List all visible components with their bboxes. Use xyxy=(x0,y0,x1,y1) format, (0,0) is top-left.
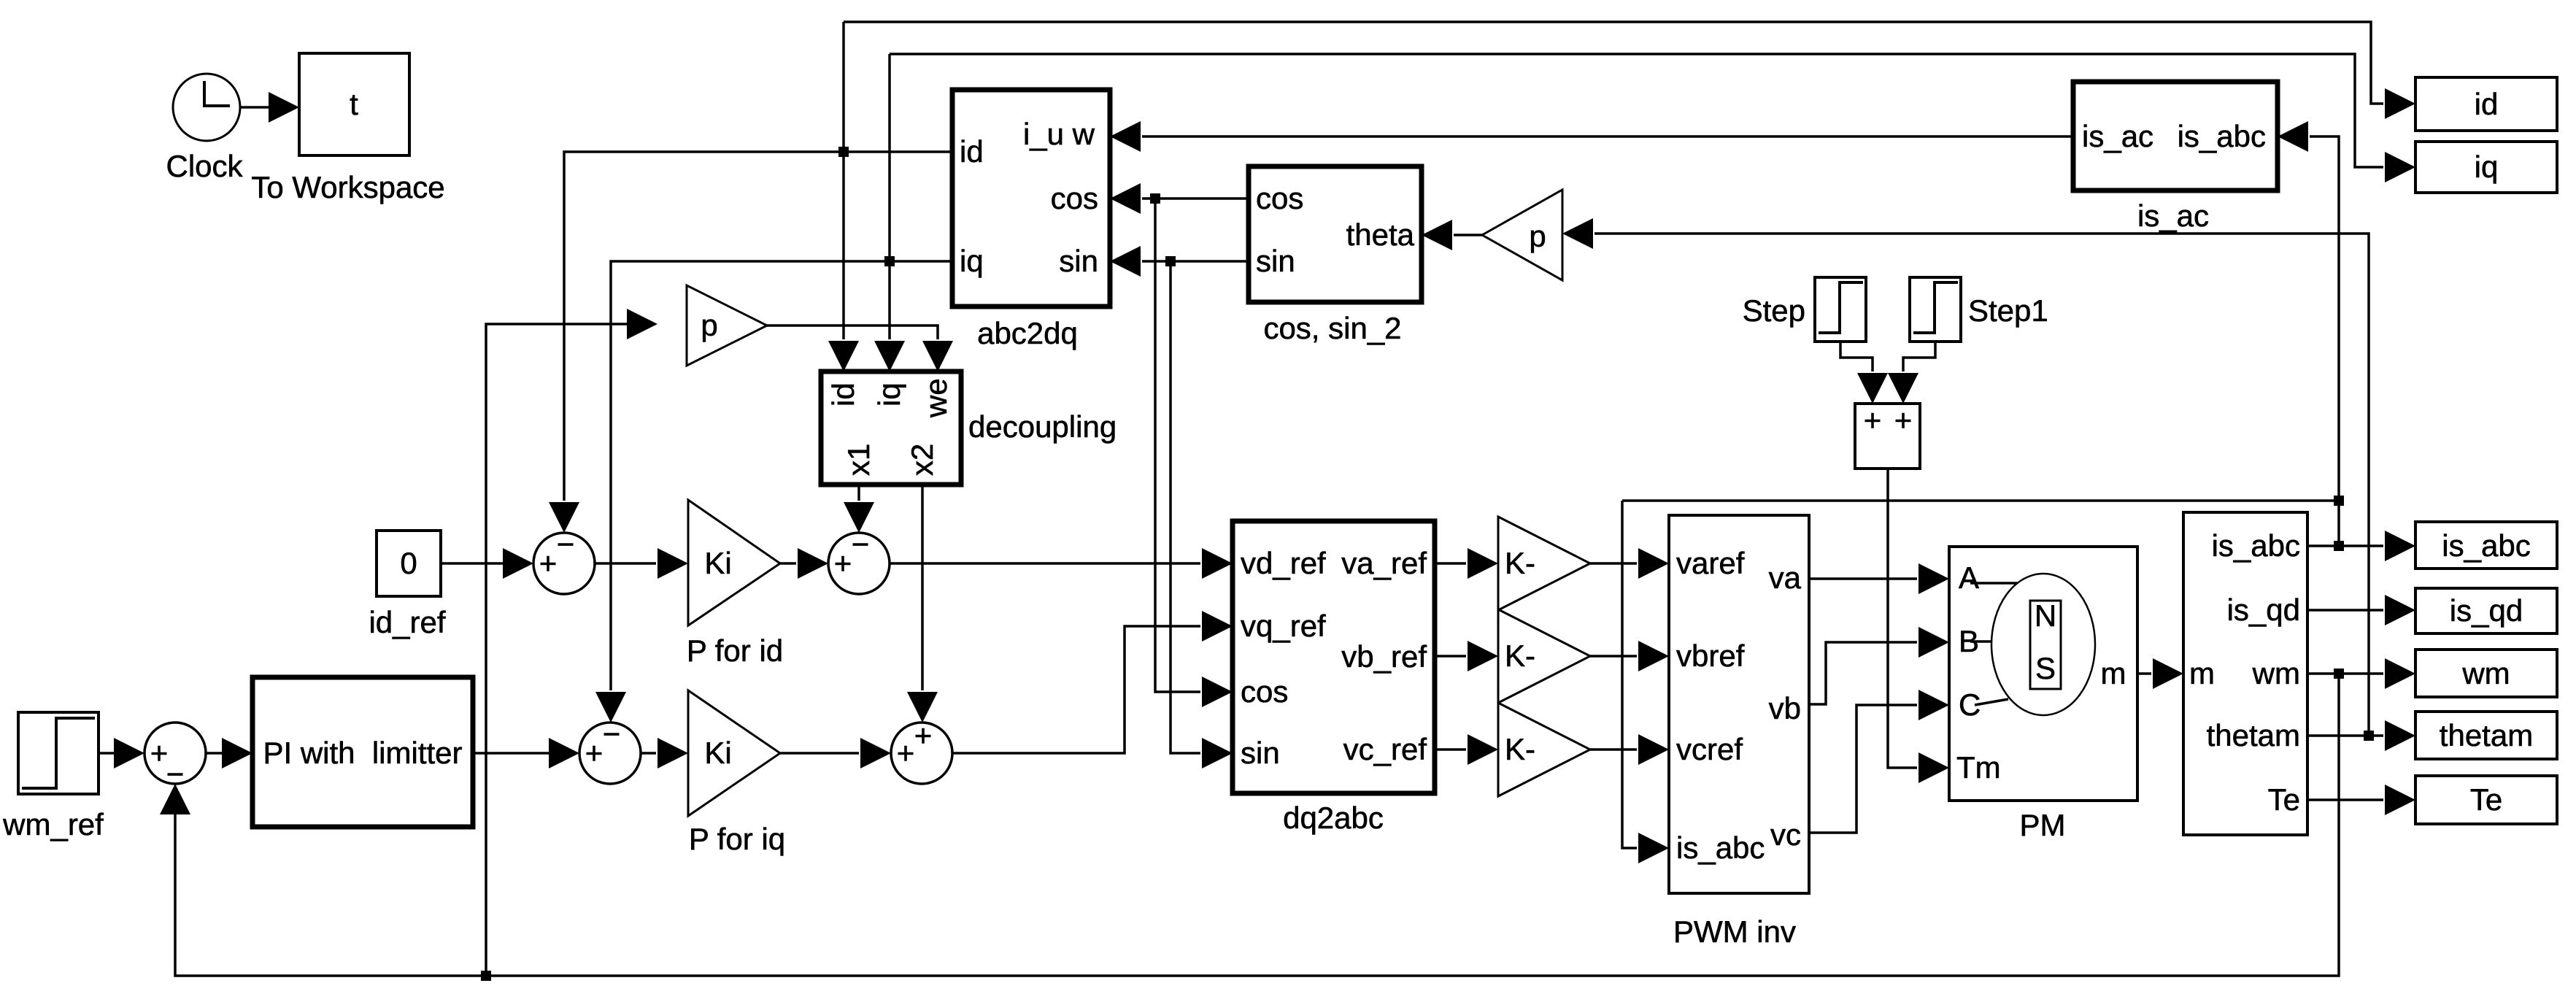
svg-text:id: id xyxy=(960,134,984,169)
svg-text:we: we xyxy=(919,378,953,418)
wire PWM va to PM A xyxy=(1809,563,1949,594)
svg-text:+: + xyxy=(585,736,603,770)
svg-text:is_ac: is_ac xyxy=(2082,119,2153,153)
svg-text:decoupling: decoupling xyxy=(968,409,1117,444)
svg-text:A: A xyxy=(1959,560,1979,595)
scope box wm xyxy=(2415,650,2557,697)
block dq2abc xyxy=(1233,521,1435,835)
wire demux thetam to scope box xyxy=(2307,720,2415,751)
wire id2 sum to dq2abc vd_ref xyxy=(890,548,1233,579)
sum junction id2 (+ -) xyxy=(828,527,890,594)
svg-text:Tm: Tm xyxy=(1956,750,2001,785)
svg-text:iq: iq xyxy=(960,244,984,278)
svg-text:Step: Step xyxy=(1743,293,1805,328)
wire PWM vc to PM C xyxy=(1809,690,1949,833)
wire vb_ref to K gain xyxy=(1435,641,1498,671)
wire decoupling x1 to id2 sum xyxy=(844,485,874,533)
svg-text:t: t xyxy=(350,87,358,121)
svg-text:N: N xyxy=(2035,598,2056,633)
wire is_ac output to abc2dq i_u w input xyxy=(1110,121,2073,152)
svg-text:+: + xyxy=(1894,403,1913,437)
scope box iq xyxy=(2415,142,2557,193)
svg-text:vd_ref: vd_ref xyxy=(1241,546,1326,580)
block decoupling xyxy=(821,371,1117,485)
wire demux wm to scope box xyxy=(2307,658,2415,689)
wire Step1 to sum xyxy=(1888,342,1935,404)
svg-text:+: + xyxy=(834,546,852,580)
node junction dot sin line xyxy=(1165,256,1176,266)
block PM (machine) xyxy=(1949,547,2137,842)
wire wm_ref to speed sum xyxy=(99,738,144,768)
svg-text:PM: PM xyxy=(2020,808,2066,842)
svg-text:Ki: Ki xyxy=(704,546,731,580)
wire va_ref to K gain xyxy=(1435,548,1498,579)
wire iq measured (abc2dq iq output, to iq sum, to scope line, to decoupling) xyxy=(595,54,2415,723)
svg-text:vcref: vcref xyxy=(1676,732,1743,766)
svg-text:dq2abc: dq2abc xyxy=(1283,801,1384,835)
svg-text:Ki: Ki xyxy=(704,736,731,770)
svg-text:sin: sin xyxy=(1256,244,1295,278)
svg-text:B: B xyxy=(1959,624,1979,658)
sum junction speed (+ -) xyxy=(144,723,206,791)
svg-text:va: va xyxy=(1769,560,1802,595)
svg-text:PWM inv: PWM inv xyxy=(1673,914,1796,949)
clock Clock xyxy=(166,74,243,183)
svg-text:x2: x2 xyxy=(905,444,939,476)
svg-text:va_ref: va_ref xyxy=(1341,546,1427,580)
block To Workspace (t) xyxy=(251,53,444,204)
svg-text:abc2dq: abc2dq xyxy=(977,316,1078,350)
svg-text:vbref: vbref xyxy=(1676,639,1745,673)
scope box thetam xyxy=(2415,712,2557,759)
gain p (left-pointing, theta) xyxy=(1482,190,1562,280)
svg-text:+: + xyxy=(914,718,933,752)
svg-text:varef: varef xyxy=(1676,546,1745,580)
sum junction id (+ -) xyxy=(533,527,595,594)
svg-text:wm: wm xyxy=(2461,656,2510,690)
wire PM m to demux m xyxy=(2137,658,2183,689)
gain K- (va) xyxy=(1498,517,1590,610)
gain p (electrical speed, right-pointing) xyxy=(687,285,767,366)
wire speed sum to PI xyxy=(206,738,252,768)
svg-text:P for id: P for id xyxy=(687,633,783,668)
wire demux is_abc to scope box xyxy=(2307,531,2415,561)
svg-text:cos: cos xyxy=(1256,181,1303,215)
block machine measurement demux xyxy=(2183,512,2307,835)
svg-text:+: + xyxy=(1864,403,1882,437)
block is_ac xyxy=(2073,82,2278,233)
node junction dot is_abc line xyxy=(2334,541,2344,551)
svg-text:+: + xyxy=(150,736,169,770)
scope box is_abc xyxy=(2415,522,2557,569)
svg-text:Clock: Clock xyxy=(166,149,243,183)
wire Clock to To Workspace xyxy=(240,92,299,123)
wire p gain output to decoupling we xyxy=(767,325,953,371)
svg-text:m: m xyxy=(2189,656,2215,690)
gain K- (vc) xyxy=(1498,703,1590,796)
node junction dot thetam line xyxy=(2364,731,2374,741)
svg-text:iq: iq xyxy=(2475,150,2499,184)
svg-text:K-: K- xyxy=(1505,732,1535,766)
svg-text:is_abc: is_abc xyxy=(1676,831,1765,865)
svg-text:P for iq: P for iq xyxy=(689,822,785,856)
svg-text:wm: wm xyxy=(2252,656,2300,690)
block cos,sin_2 xyxy=(1249,166,1422,345)
wire riser to p gain input xyxy=(486,309,658,976)
wire vc_ref to K gain xyxy=(1435,734,1498,765)
svg-text:is_qd: is_qd xyxy=(2450,593,2523,628)
svg-text:PI with limitter: PI with limitter xyxy=(263,736,462,770)
sum junction iq (+ -) xyxy=(579,717,641,784)
svg-text:cos, sin_2: cos, sin_2 xyxy=(1263,311,1401,345)
node junction dot iq line xyxy=(884,256,895,266)
svg-text:i_u w: i_u w xyxy=(1023,117,1095,151)
wire iq sum to Ki gain xyxy=(641,738,688,768)
svg-text:vb_ref: vb_ref xyxy=(1341,639,1427,674)
svg-text:K-: K- xyxy=(1505,546,1535,580)
svg-text:x1: x1 xyxy=(841,444,876,476)
svg-text:vc_ref: vc_ref xyxy=(1343,732,1427,766)
wire decoupling x2 to iq2 sum xyxy=(907,485,938,723)
node junction dot id line xyxy=(838,147,849,157)
svg-text:thetam: thetam xyxy=(2440,718,2533,752)
svg-text:+: + xyxy=(539,546,558,580)
wire demux is_qd to scope box xyxy=(2307,595,2415,625)
gain Ki (P for id) xyxy=(687,500,783,668)
svg-text:K-: K- xyxy=(1505,639,1535,673)
sum junction iq2 (+ +) xyxy=(891,718,952,784)
sum block torque (+ +) xyxy=(1855,403,1920,469)
wire thetam feedback to p-left input xyxy=(1562,218,2369,736)
wire Ki to sum2 xyxy=(780,548,828,579)
svg-text:vc: vc xyxy=(1770,817,1801,852)
svg-text:To Workspace: To Workspace xyxy=(251,170,444,204)
node junction dot is_abc top xyxy=(2334,496,2344,506)
wire demux Te to scope box xyxy=(2307,785,2415,815)
wire K- vb to PWM vbref xyxy=(1590,641,1669,671)
svg-text:theta: theta xyxy=(1346,217,1415,252)
svg-text:is_abc: is_abc xyxy=(2442,528,2530,563)
wire K- vc to PWM vcref xyxy=(1590,734,1669,765)
svg-text:is_ac: is_ac xyxy=(2137,199,2209,233)
wire sin from cos,sin_2 to abc2dq and down to dq2abc xyxy=(1110,246,1249,768)
svg-text:wm_ref: wm_ref xyxy=(2,807,104,841)
node junction dot wm line xyxy=(2334,669,2344,679)
wire iq2 sum to dq2abc vq_ref xyxy=(952,611,1233,753)
svg-text:id: id xyxy=(2475,87,2499,121)
svg-text:is_abc: is_abc xyxy=(2178,119,2266,153)
scope box id xyxy=(2415,77,2557,131)
svg-text:is_abc: is_abc xyxy=(2212,528,2300,563)
source block Step xyxy=(1743,277,1866,342)
wire cos from cos,sin_2 to abc2dq and down to dq2abc xyxy=(1110,183,1249,707)
svg-text:Te: Te xyxy=(2268,782,2300,817)
svg-text:−: − xyxy=(557,527,575,561)
gain K- (vb) xyxy=(1498,609,1590,703)
block PI with limitter xyxy=(252,677,473,827)
svg-text:cos: cos xyxy=(1051,181,1098,215)
wire Step to sum xyxy=(1840,342,1888,404)
svg-text:vq_ref: vq_ref xyxy=(1241,609,1326,643)
source block Step1 xyxy=(1910,277,2048,342)
svg-text:S: S xyxy=(2035,651,2056,685)
wire torque sum to PM Tm xyxy=(1888,469,1949,783)
svg-text:p: p xyxy=(701,308,717,342)
wire id measured (abc2dq id output, to id sum, to scope line, to decoupling) xyxy=(549,22,2415,533)
wire Ki iq to sum ++ xyxy=(780,738,891,768)
wire wm feedback (bottom line) xyxy=(160,674,2339,976)
svg-text:sin: sin xyxy=(1059,244,1098,278)
gain Ki (P for iq) xyxy=(688,690,785,856)
svg-text:sin: sin xyxy=(1241,736,1280,770)
svg-text:m: m xyxy=(2101,656,2126,690)
wire p-left output to theta input xyxy=(1422,220,1482,250)
constant block 0 (id_ref) xyxy=(369,531,445,639)
svg-text:Te: Te xyxy=(2470,782,2502,817)
svg-text:thetam: thetam xyxy=(2207,718,2300,752)
wire PI output to iq sum xyxy=(473,738,579,768)
svg-text:id_ref: id_ref xyxy=(369,605,445,639)
node junction dot cos line xyxy=(1150,193,1160,204)
svg-text:p: p xyxy=(1529,219,1546,253)
svg-text:iq: iq xyxy=(872,382,906,407)
wire K- va to PWM varef xyxy=(1590,548,1669,579)
wire PWM vb to PM B xyxy=(1809,627,1949,704)
svg-text:Step1: Step1 xyxy=(1968,293,2048,328)
svg-text:C: C xyxy=(1959,687,1981,722)
block abc2dq xyxy=(952,90,1110,350)
svg-text:0: 0 xyxy=(400,546,417,580)
svg-text:id: id xyxy=(826,382,860,407)
node junction dot wm feedback to p gain xyxy=(481,971,491,981)
svg-text:cos: cos xyxy=(1241,674,1288,709)
wire 0 to id sum xyxy=(441,548,533,579)
svg-text:−: − xyxy=(852,527,870,561)
svg-text:−: − xyxy=(603,717,621,751)
svg-text:is_qd: is_qd xyxy=(2227,593,2300,627)
scope box Te xyxy=(2415,776,2557,824)
block PWM inv xyxy=(1669,515,1809,949)
svg-text:+: + xyxy=(897,736,915,770)
svg-text:vb: vb xyxy=(1769,691,1801,725)
wire is_abc riser to is_ac input xyxy=(2278,121,2339,546)
wire id sum to Ki gain xyxy=(595,548,688,579)
wire is_abc feedback into PWM inv xyxy=(1622,501,2339,863)
source block wm_ref (step) xyxy=(2,712,104,841)
scope box is_qd xyxy=(2415,588,2557,633)
